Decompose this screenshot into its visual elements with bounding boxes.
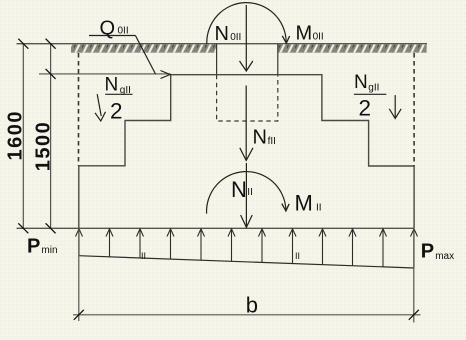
fraction bar right xyxy=(354,93,386,95)
pressure arrow 5 xyxy=(198,229,205,260)
svg-text:M: M xyxy=(296,23,313,45)
force arrow NfII xyxy=(245,86,247,161)
base line of footing xyxy=(17,227,415,229)
svg-text:fII: fII xyxy=(268,136,276,147)
svg-text:M: M xyxy=(295,191,313,216)
pressure arrow 2 xyxy=(106,229,113,257)
b dimension line xyxy=(73,314,421,316)
b dimension extension line left xyxy=(78,228,80,321)
svg-text:N: N xyxy=(253,127,267,149)
b dimension extension line right xyxy=(413,228,415,322)
svg-text:1500: 1500 xyxy=(32,121,54,172)
svg-text:N: N xyxy=(215,23,229,45)
force arrow N0II xyxy=(245,5,247,71)
svg-text:0II: 0II xyxy=(230,32,241,43)
ground hatch left of column xyxy=(71,44,217,52)
svg-text:gII: gII xyxy=(368,83,379,94)
svg-text:II: II xyxy=(247,187,253,198)
svg-text:P: P xyxy=(421,241,434,263)
arrowhead of M0II arc xyxy=(282,36,289,43)
tick at b right xyxy=(409,310,419,320)
svg-text:0II: 0II xyxy=(118,26,129,37)
svg-text:2: 2 xyxy=(359,95,372,120)
dashed embedded column box xyxy=(217,75,278,121)
pressure arrow 9 xyxy=(319,229,326,265)
svg-text:II: II xyxy=(316,203,322,214)
pressure arrow 12 xyxy=(411,229,418,268)
force arrow NII xyxy=(245,163,247,227)
svg-text:min: min xyxy=(41,245,57,256)
svg-text:b: b xyxy=(246,293,258,318)
Q force arrow (horizontal, to pedestal) xyxy=(161,71,171,79)
svg-text:II: II xyxy=(141,251,146,261)
pressure arrow 8 xyxy=(289,229,296,264)
tick at 1500 bottom xyxy=(46,223,56,233)
sloped soil pressure line xyxy=(79,256,414,268)
pressure arrow 4 xyxy=(167,229,174,259)
pressure arrow 3 xyxy=(137,229,144,258)
down arrow NgII right xyxy=(394,95,396,118)
tick at b left xyxy=(74,310,84,320)
fraction bar left xyxy=(105,93,132,95)
pressure arrow 10 xyxy=(349,229,356,266)
svg-text:max: max xyxy=(435,251,454,262)
dimension line 1500 xyxy=(50,44,52,229)
moment arc MII xyxy=(207,172,286,214)
svg-text:P: P xyxy=(27,236,40,258)
svg-text:II: II xyxy=(295,251,300,261)
pressure arrow 1 xyxy=(76,229,83,256)
svg-text:N: N xyxy=(105,74,119,95)
svg-text:N: N xyxy=(354,72,368,93)
underline of Q label xyxy=(89,35,135,37)
svg-text:1600: 1600 xyxy=(5,110,27,161)
dashed projection line left footing edge xyxy=(78,53,80,166)
tick at 1600 top xyxy=(18,39,28,49)
ground hatch right of column xyxy=(278,44,427,52)
extension line at foundation top (1500 level) xyxy=(39,73,171,75)
pressure arrow 11 xyxy=(380,229,387,267)
svg-text:0II: 0II xyxy=(313,32,324,43)
column right edge xyxy=(277,44,279,75)
svg-text:2: 2 xyxy=(110,98,123,123)
arrowhead of MII arc xyxy=(282,204,289,211)
tick at 1500 ground crossing xyxy=(46,39,56,49)
ground line xyxy=(17,43,428,45)
dimension line 1600 xyxy=(22,44,24,229)
leader line from Q label xyxy=(135,36,155,75)
pressure arrow 7 xyxy=(259,229,266,263)
down arrow NgII left xyxy=(97,94,101,116)
svg-text:N: N xyxy=(231,177,247,202)
moment arc M0II xyxy=(207,3,286,44)
pressure arrow 6 xyxy=(228,229,235,262)
tick at 1500 top xyxy=(46,69,56,79)
tick at 1600 bottom xyxy=(18,223,28,233)
svg-text:Q: Q xyxy=(100,18,116,40)
dashed projection line right footing edge xyxy=(413,53,415,166)
column left edge xyxy=(216,44,218,75)
foundation outline xyxy=(79,75,414,229)
